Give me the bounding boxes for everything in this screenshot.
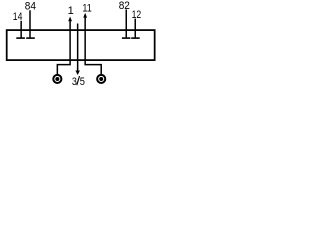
svg-text:11: 11 <box>82 3 91 15</box>
net 3/5 down-arrowhead <box>75 71 80 76</box>
relay body box <box>7 30 155 60</box>
terminal 84 lead <box>29 10 31 37</box>
terminal 14 lead <box>20 21 22 38</box>
terminal 12 contact bar <box>131 37 140 39</box>
svg-text:1: 1 <box>68 5 74 17</box>
terminal 12 lead <box>134 19 136 38</box>
svg-text:84: 84 <box>25 1 36 13</box>
terminal 84 contact bar <box>26 37 35 39</box>
socket terminal left (center dot) <box>55 77 59 81</box>
terminal 82 lead <box>125 10 127 38</box>
svg-text:12: 12 <box>132 9 142 21</box>
svg-text:5: 5 <box>80 76 85 88</box>
socket terminal right (center dot) <box>99 77 103 81</box>
svg-text:3: 3 <box>72 76 77 88</box>
svg-text:82: 82 <box>119 0 130 12</box>
socket terminal right (outer ring) <box>97 75 105 83</box>
svg-text:14: 14 <box>13 11 23 23</box>
terminal 1 wire through box, jog left to socket <box>57 21 70 75</box>
terminal 1 up-arrowhead <box>68 17 72 22</box>
terminal 11 wire through box, jog right to socket <box>85 17 101 75</box>
terminal 82 contact bar <box>122 37 130 39</box>
socket terminal left (outer ring) <box>53 75 61 83</box>
terminal 11 up-arrowhead <box>83 13 87 18</box>
terminal 14 contact bar <box>16 37 25 39</box>
net 3/5 wire <box>77 24 79 72</box>
